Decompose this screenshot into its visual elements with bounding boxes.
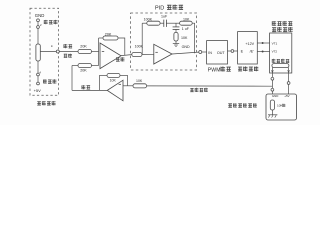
buffer output wire [72, 89, 107, 91]
resistor R2 20K feedback to summing [78, 64, 92, 68]
svg-text:/E': /E' [250, 50, 255, 54]
label tiaojie (CJK pseudo) [116, 57, 124, 61]
PID controller dashed box [131, 13, 197, 70]
left dashed box: step-input unit [30, 8, 59, 95]
wire PWM to driver [228, 50, 238, 52]
svg-text:10K: 10K [183, 18, 190, 22]
wire J1 to pot [37, 28, 39, 44]
capacitor C1 1uF series [163, 20, 165, 27]
svg-text:IN: IN [208, 51, 212, 55]
terminal circle left upper [271, 77, 274, 80]
label dianya shuchu (CJK pseudo) [190, 88, 208, 92]
driver unit box [238, 32, 258, 64]
wire R2 to summing node [92, 65, 99, 67]
terminal circle on border [56, 50, 59, 53]
wire J2 [37, 76, 39, 82]
wire driver to heater top +12V [257, 42, 269, 44]
branch down: capacitor C2 1uF [175, 23, 177, 26]
ground inside PID [173, 43, 179, 45]
wire to R5 [142, 22, 147, 24]
terminal circle left lower [271, 88, 274, 91]
svg-text:+5V: +5V [34, 88, 42, 93]
svg-text:OUT: OUT [217, 51, 226, 55]
temperature unit box [270, 33, 292, 73]
label moni cewen danyuan (CJK pseudo) [228, 103, 257, 107]
label duanlukuai top (CJK pseudo) [44, 20, 57, 24]
op-amp U2 PID amp [154, 44, 172, 64]
svg-text:PWM: PWM [208, 67, 221, 73]
wire terminal to R1 [59, 51, 78, 53]
PWM generator box [207, 41, 228, 64]
label qudong danyuan (CJK pseudo) [238, 66, 258, 71]
svg-text:10K: 10K [181, 36, 188, 40]
potentiometer RP [36, 44, 40, 61]
jumper J2 terminal a [37, 73, 40, 76]
wire R1 to summing node [92, 51, 99, 53]
terminal circle PID out [199, 51, 202, 54]
long feedback wire: voltage output [147, 85, 273, 87]
wire R4 to U2 [142, 53, 154, 55]
resistor R5 100K [147, 21, 160, 25]
wire C2 to R6 [175, 30, 177, 33]
heater resistor [272, 64, 289, 68]
label fankui (CJK pseudo) [82, 85, 90, 89]
svg-text:+12V: +12V [245, 42, 254, 46]
resistor R7 10K top right [180, 21, 193, 25]
svg-text:1uF: 1uF [161, 15, 168, 19]
node circle [231, 50, 234, 53]
svg-text:GND: GND [272, 94, 278, 98]
wire R5 to C1 [160, 22, 164, 24]
label sheding (CJK pseudo) [64, 44, 72, 48]
wire R6 to ground [175, 41, 177, 43]
label huo dianzusi line2 (CJK pseudo) [272, 27, 293, 32]
wire U2 out exits box [172, 52, 199, 54]
wires around R9 [120, 74, 128, 76]
wire to PWM box [202, 51, 207, 53]
svg-text:20K: 20K [80, 45, 87, 49]
svg-text:VT1: VT1 [272, 41, 278, 45]
label wendu danyuan line1 (CJK pseudo) [272, 21, 292, 26]
op-amp U3 buffer (points left) [107, 80, 123, 101]
terminal circle right [287, 82, 290, 85]
label duanlukuai bottom (CJK pseudo) [43, 79, 56, 83]
svg-text:GND: GND [182, 45, 190, 49]
wire pot bottom [37, 61, 39, 73]
wire C1 to node [166, 22, 179, 24]
unit label below box (CJK pseudo) [37, 101, 55, 105]
wire R7 to output column [192, 23, 194, 53]
svg-text:10K: 10K [136, 79, 143, 83]
node column to top PID network [141, 23, 143, 54]
thermistor [270, 100, 274, 110]
svg-text:+5V: +5V [284, 94, 289, 98]
analog sensor unit box [266, 94, 297, 120]
jumper J1 terminal b [37, 26, 40, 29]
svg-text:20K: 20K [105, 32, 112, 36]
wire up to R2 [71, 66, 73, 91]
wire to R3 fb [99, 37, 103, 39]
heater right lead with arrow [288, 68, 290, 82]
svg-text:1 uF: 1 uF [182, 27, 190, 31]
svg-text:E: E [241, 50, 244, 54]
label dianya (CJK pseudo) [64, 54, 72, 58]
svg-text:100K: 100K [144, 18, 153, 22]
resistor R4 100K input [132, 53, 142, 57]
wire thermistor to earth [271, 110, 273, 115]
resistor R3 20K feedback [103, 36, 118, 40]
resistor R1 20K [78, 49, 92, 53]
svg-text:10K: 10K [110, 79, 117, 83]
wire driver to heater bottom /E [257, 51, 269, 53]
svg-text:GND: GND [35, 13, 45, 18]
svg-text:20K: 20K [80, 69, 87, 73]
heater left lead with arrow [271, 68, 273, 78]
jumper J1 terminal a [37, 19, 40, 22]
speck pin 3 [51, 45, 52, 47]
feedback column [127, 75, 129, 85]
summing node column [98, 38, 100, 66]
wire J1 [37, 22, 39, 26]
earth ground symbol [268, 114, 277, 116]
wire U1 out to PID box [121, 55, 132, 56]
tap wire [40, 51, 56, 53]
svg-text:PID: PID [155, 6, 164, 12]
svg-text:VT2: VT2 [272, 49, 278, 53]
right wire into sensor box [288, 84, 290, 96]
wire R8 to buffer input [123, 85, 133, 87]
jumper J2 terminal b [37, 82, 40, 85]
op-amp U1 summing amp [100, 43, 121, 69]
resistor R9 10K buffer feedback [107, 73, 120, 77]
left column between terminals [271, 80, 273, 88]
resistor R8 10K feedback input [133, 84, 147, 88]
wire R3 to output [118, 38, 125, 55]
label jiare dianzu (CJK pseudo) [272, 59, 289, 63]
wire into sensor box [271, 91, 273, 100]
resistor R6 10K vertical [174, 32, 178, 41]
